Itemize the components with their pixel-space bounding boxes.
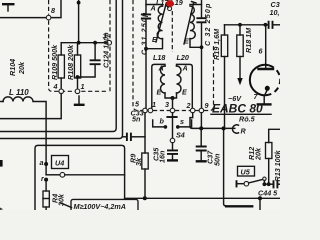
- svg-text:Rö.5: Rö.5: [239, 115, 256, 124]
- svg-text:R18 1M: R18 1M: [244, 27, 253, 53]
- svg-text:1: 1: [81, 82, 85, 91]
- svg-text:A: A: [158, 64, 164, 73]
- svg-text:L18: L18: [153, 53, 165, 62]
- svg-text:L 110: L 110: [9, 88, 29, 97]
- svg-text:R: R: [241, 127, 247, 136]
- svg-text:1: 1: [152, 100, 156, 109]
- svg-text:R109 500k: R109 500k: [50, 44, 59, 80]
- svg-text:C 32 250p: C 32 250p: [203, 3, 212, 46]
- svg-text:50n: 50n: [213, 153, 222, 166]
- svg-text:R19 1,6M: R19 1,6M: [212, 28, 221, 60]
- svg-text:E: E: [182, 88, 187, 97]
- svg-text:s: s: [180, 117, 184, 126]
- svg-text:9: 9: [205, 101, 209, 110]
- svg-text:U4: U4: [55, 159, 64, 168]
- svg-text:20k: 20k: [17, 61, 26, 75]
- svg-text:10,: 10,: [270, 8, 280, 17]
- svg-text:E: E: [152, 35, 157, 44]
- svg-text:5n: 5n: [132, 115, 141, 124]
- svg-text:b: b: [160, 117, 165, 126]
- svg-text:M≥100V~4,2mA: M≥100V~4,2mA: [74, 202, 127, 210]
- svg-text:4: 4: [53, 82, 58, 91]
- svg-text:A: A: [150, 4, 156, 13]
- svg-text:R104: R104: [8, 59, 17, 76]
- svg-text:L20: L20: [177, 53, 189, 62]
- svg-text:E: E: [184, 37, 189, 46]
- svg-text:A: A: [182, 64, 188, 73]
- svg-text:U5: U5: [241, 168, 251, 177]
- svg-text:8: 8: [51, 6, 55, 15]
- svg-text:2: 2: [186, 101, 191, 110]
- svg-text:3: 3: [165, 100, 169, 109]
- svg-text:20k: 20k: [254, 147, 263, 161]
- svg-text:E: E: [157, 88, 162, 97]
- svg-text:EABC 80: EABC 80: [212, 102, 263, 116]
- svg-text:C44 5: C44 5: [258, 189, 278, 198]
- svg-text:R13 100k: R13 100k: [273, 149, 280, 181]
- svg-text:3k: 3k: [134, 157, 143, 166]
- svg-text:a: a: [40, 158, 44, 167]
- svg-text:R108 200k: R108 200k: [66, 44, 75, 80]
- svg-text:C124 100p: C124 100p: [102, 32, 111, 68]
- svg-text:16n: 16n: [158, 150, 167, 163]
- svg-text:S4: S4: [176, 131, 185, 140]
